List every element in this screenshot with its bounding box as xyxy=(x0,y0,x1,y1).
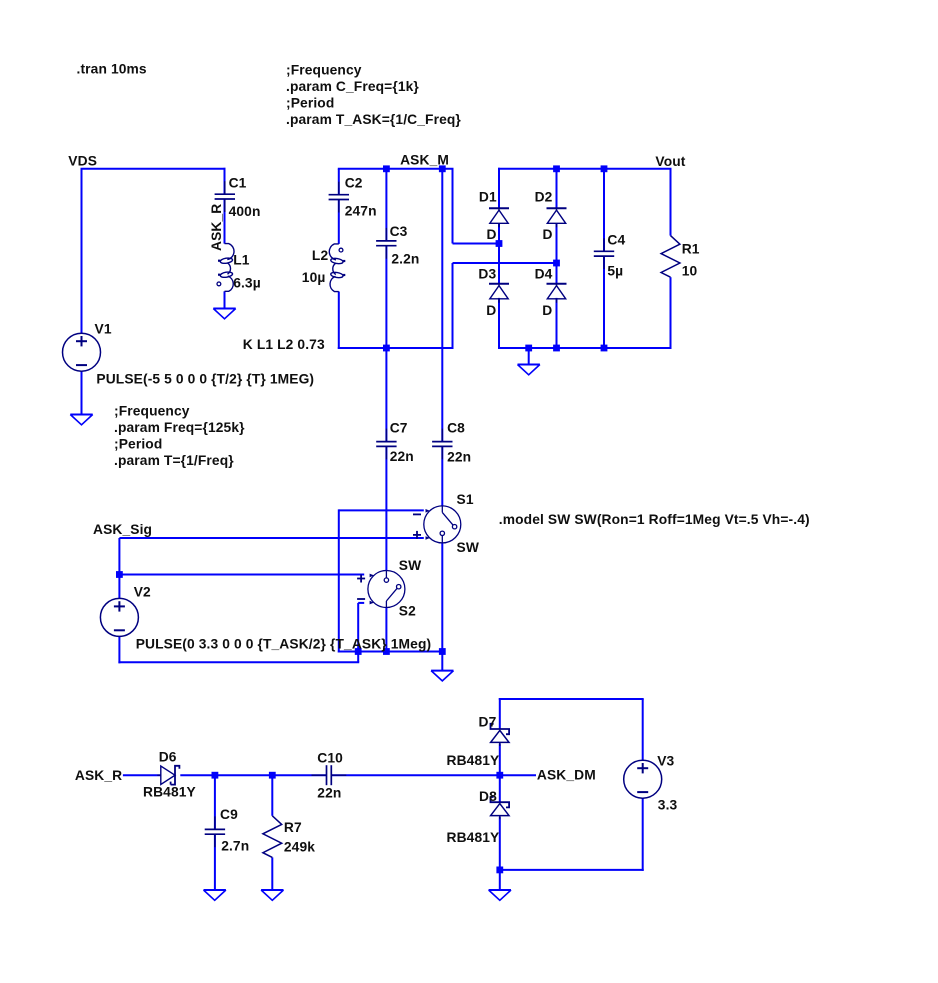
node Vout j2 xyxy=(601,165,608,172)
svg-text:;Frequency: ;Frequency xyxy=(286,62,362,77)
wire C7 to S2 xyxy=(385,446,387,570)
ground D8 xyxy=(489,889,511,891)
node ASK_M j1 xyxy=(383,165,390,172)
svg-text:D6: D6 xyxy=(159,750,177,765)
node ASK_Sig branch xyxy=(116,571,123,578)
svg-text:2.2n: 2.2n xyxy=(391,252,419,267)
svg-text:22n: 22n xyxy=(390,449,414,464)
node V3 return xyxy=(496,867,503,874)
wire to S2 plus xyxy=(119,574,364,576)
diode D3 xyxy=(489,284,509,303)
wire V2 return xyxy=(118,661,359,663)
svg-text:;Period: ;Period xyxy=(114,437,162,452)
wire C9 to ground xyxy=(214,834,216,890)
node bottom rail D4 xyxy=(553,345,560,352)
wire Vout to R1 xyxy=(670,169,672,236)
svg-text:D2: D2 xyxy=(535,190,553,205)
capacitor C4 xyxy=(594,238,614,269)
svg-text:D: D xyxy=(542,303,552,318)
wire C3 to C7 xyxy=(385,246,387,442)
switch S2 xyxy=(357,571,405,608)
wire to D7 xyxy=(499,698,501,729)
svg-text:RB481Y: RB481Y xyxy=(143,784,196,799)
svg-text:SW: SW xyxy=(399,558,422,573)
wire to R7 xyxy=(271,775,273,816)
wire D8 down xyxy=(499,817,501,870)
wire S1 minus down xyxy=(338,509,340,652)
wire bottom return xyxy=(499,869,644,871)
svg-text:.param C_Freq={1k}: .param C_Freq={1k} xyxy=(286,79,419,94)
node R7 xyxy=(269,772,276,779)
wire S2 minus down xyxy=(357,603,359,662)
inductor L1 xyxy=(217,244,234,292)
diode D6 xyxy=(157,766,179,785)
wire node to D8 xyxy=(499,775,501,802)
node tank bottom xyxy=(383,345,390,352)
svg-text:C1: C1 xyxy=(229,175,247,190)
svg-text:.model SW SW(Ron=1 Roff=1Meg V: .model SW SW(Ron=1 Roff=1Meg Vt=.5 Vh=-.… xyxy=(499,512,810,527)
wire S1 to ground rail xyxy=(441,543,443,652)
wire V3 bottom xyxy=(642,798,644,871)
ground bridge xyxy=(518,364,540,366)
svg-text:D4: D4 xyxy=(535,266,553,281)
wire to D1-D3 junction xyxy=(453,243,500,245)
svg-text:247n: 247n xyxy=(345,204,377,219)
svg-text:D: D xyxy=(487,227,497,242)
svg-text:S2: S2 xyxy=(399,603,416,618)
wire ASK_M to C3 xyxy=(385,169,387,241)
node Vout j1 xyxy=(553,165,560,172)
node C9 xyxy=(212,772,219,779)
svg-text:.param Freq={125k}: .param Freq={125k} xyxy=(114,420,245,435)
node bottom rail gnd xyxy=(525,345,532,352)
capacitor C3 xyxy=(376,228,396,259)
svg-text:.param T_ASK={1/C_Freq}: .param T_ASK={1/C_Freq} xyxy=(286,112,461,127)
svg-text:C7: C7 xyxy=(390,421,408,436)
wire to C1 top xyxy=(224,168,226,194)
svg-text:10µ: 10µ xyxy=(302,270,326,285)
svg-text:5µ: 5µ xyxy=(607,264,623,279)
svg-text:RB481Y: RB481Y xyxy=(447,830,500,845)
svg-text:V2: V2 xyxy=(134,585,151,600)
svg-text:C2: C2 xyxy=(345,175,363,190)
svg-text:22n: 22n xyxy=(317,785,341,800)
wire to V3 top xyxy=(642,699,644,761)
svg-text:;Period: ;Period xyxy=(286,95,334,110)
ground C9 xyxy=(204,889,226,891)
wire R7 to ground xyxy=(271,857,273,890)
resistor R1 xyxy=(661,236,680,278)
capacitor C8 xyxy=(432,429,452,460)
svg-text:D: D xyxy=(486,303,496,318)
voltage source V1 xyxy=(63,333,101,371)
svg-text:.param T={1/Freq}: .param T={1/Freq} xyxy=(114,453,234,468)
capacitor C7 xyxy=(376,429,396,460)
svg-text:ASK_R: ASK_R xyxy=(209,204,224,251)
voltage source V2 xyxy=(100,598,138,636)
inductor L2 xyxy=(329,244,345,292)
svg-text:249k: 249k xyxy=(284,839,315,854)
svg-text:.tran 10ms: .tran 10ms xyxy=(77,62,147,77)
svg-text:L2: L2 xyxy=(312,248,329,263)
wire D7 top rail xyxy=(499,698,644,700)
node bottom rail C4 xyxy=(601,345,608,352)
wire S2 to ground rail xyxy=(385,608,387,652)
wire V2 bottom xyxy=(118,636,120,663)
svg-text:22n: 22n xyxy=(447,449,471,464)
svg-text:400n: 400n xyxy=(229,204,261,219)
wire R1 bottom xyxy=(670,277,672,349)
svg-text:R1: R1 xyxy=(682,241,700,256)
wire switch ground rail xyxy=(338,651,443,653)
wire ASK_M elbow down xyxy=(452,169,454,244)
wire VDS vertical to V1 xyxy=(81,169,83,334)
ground V1 xyxy=(70,414,92,416)
svg-text:C4: C4 xyxy=(607,233,625,248)
wire bridge bottom rail xyxy=(498,347,672,349)
wire C2 to L2 xyxy=(338,200,340,244)
wire D3 to bottom rail xyxy=(498,298,500,349)
svg-text:ASK_R: ASK_R xyxy=(75,768,122,783)
wire rail to D1 xyxy=(498,168,500,209)
diode D1 xyxy=(489,208,509,227)
wire D4 to bottom rail xyxy=(556,298,558,349)
svg-text:;Frequency: ;Frequency xyxy=(114,404,190,419)
wire to ground xyxy=(499,870,501,890)
wire D2 to D4 xyxy=(556,223,558,283)
wire D1 to D3 xyxy=(498,223,500,283)
wire rail to D2 xyxy=(556,169,558,209)
node D2-D4 xyxy=(553,260,560,267)
ground L1 xyxy=(213,308,235,310)
svg-text:6.3µ: 6.3µ xyxy=(233,276,261,291)
wire ASK_M to C8 xyxy=(441,169,443,442)
wire elbow to tank bottom xyxy=(452,263,454,349)
svg-text:ASK_DM: ASK_DM xyxy=(537,768,596,783)
voltage source V3 xyxy=(624,760,662,798)
switch S1 xyxy=(413,506,461,543)
wire L2 bottom xyxy=(338,292,340,350)
svg-text:D1: D1 xyxy=(479,190,497,205)
wire S2 minus stub xyxy=(358,602,364,604)
node ASK_DM xyxy=(496,772,503,779)
wire to C2 top xyxy=(338,169,340,195)
diode D7 xyxy=(491,724,510,746)
svg-text:C10: C10 xyxy=(317,750,343,765)
wire S1 minus control xyxy=(339,509,424,511)
svg-text:D: D xyxy=(543,227,553,242)
svg-text:2.7n: 2.7n xyxy=(221,838,249,853)
svg-text:V1: V1 xyxy=(95,322,112,337)
wire VDS top xyxy=(81,168,226,170)
wire C4 bottom xyxy=(603,256,605,349)
svg-text:V3: V3 xyxy=(657,754,674,769)
wire V1 to ground xyxy=(81,371,83,415)
svg-text:ASK_Sig: ASK_Sig xyxy=(93,522,152,537)
node rail S1 xyxy=(439,648,446,655)
wire to C4 top xyxy=(603,169,605,252)
svg-text:3.3: 3.3 xyxy=(658,798,678,813)
node D1-D3 xyxy=(496,240,503,247)
wire D6 to C10 xyxy=(180,774,326,776)
diode D4 xyxy=(547,284,567,303)
wire tank bottom xyxy=(338,347,454,349)
wire C8 to S1 xyxy=(441,446,443,505)
wire ASK_R to D6 xyxy=(123,774,161,776)
diode D8 xyxy=(491,797,510,819)
svg-text:PULSE(0 3.3 0 0 0 {T_ASK/2} {T: PULSE(0 3.3 0 0 0 {T_ASK/2} {T_ASK} 1Meg… xyxy=(136,637,432,652)
node ASK_M j2 xyxy=(439,165,446,172)
wire ASK_Sig to V2 xyxy=(118,538,120,599)
ground switch rail xyxy=(431,670,453,672)
wire C1 to L1 / node ASK_R xyxy=(224,199,226,244)
wire bridge top rail xyxy=(498,168,672,170)
svg-text:S1: S1 xyxy=(457,492,474,507)
capacitor C9 xyxy=(205,816,225,847)
svg-text:RB481Y: RB481Y xyxy=(447,753,500,768)
svg-text:C3: C3 xyxy=(390,224,408,239)
svg-text:D3: D3 xyxy=(478,266,496,281)
wire bottom rail to ground xyxy=(528,348,530,365)
svg-text:ASK_M: ASK_M xyxy=(400,152,449,167)
wire rail to ground xyxy=(441,652,443,671)
svg-text:K L1 L2 0.73: K L1 L2 0.73 xyxy=(243,337,325,352)
capacitor C1 xyxy=(215,181,235,212)
svg-text:SW: SW xyxy=(457,540,480,555)
svg-text:VDS: VDS xyxy=(68,153,97,168)
svg-text:L1: L1 xyxy=(233,253,250,268)
wire C10 to ASK_DM xyxy=(331,774,536,776)
node rail S2minus xyxy=(355,648,362,655)
svg-text:C9: C9 xyxy=(220,807,238,822)
svg-text:R7: R7 xyxy=(284,820,302,835)
svg-text:D8: D8 xyxy=(479,789,497,804)
ground R7 xyxy=(261,889,283,891)
wire to D2-D4 junction xyxy=(453,262,558,264)
wire D7 to node xyxy=(499,744,501,776)
diode D2 xyxy=(547,208,567,227)
node rail S2 xyxy=(383,648,390,655)
svg-text:C8: C8 xyxy=(447,421,465,436)
wire ASK_Sig to S1 plus xyxy=(119,537,423,539)
resistor R7 xyxy=(263,816,282,858)
capacitor C2 xyxy=(329,182,349,213)
svg-text:D7: D7 xyxy=(479,714,497,729)
wire L1 to ground xyxy=(224,291,226,308)
wire ASK_M rail xyxy=(338,168,454,170)
capacitor C10 xyxy=(312,765,347,785)
svg-text:Vout: Vout xyxy=(655,154,685,169)
svg-text:10: 10 xyxy=(682,264,698,279)
svg-text:PULSE(-5 5 0 0 0 {T/2} {T} 1ME: PULSE(-5 5 0 0 0 {T/2} {T} 1MEG) xyxy=(96,372,314,387)
wire to C9 xyxy=(214,775,216,829)
